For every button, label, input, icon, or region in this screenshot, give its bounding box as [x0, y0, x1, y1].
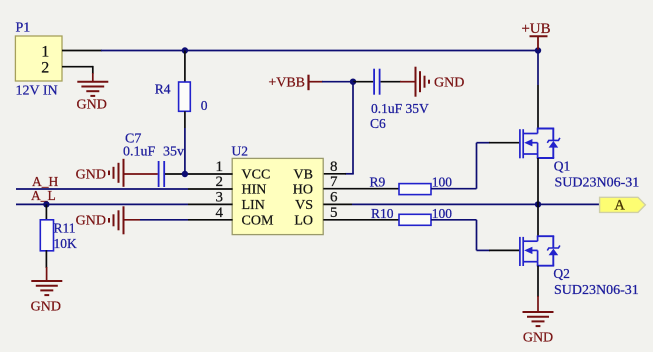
wire +VBB to junction [322, 81, 353, 83]
wire GND to C7 [124, 173, 158, 175]
svg-text:0: 0 [201, 98, 208, 113]
ground GND at C6 (right-pointing) [416, 67, 465, 97]
wire R9 to Q1 gate [431, 143, 519, 189]
power +UB [521, 21, 550, 50]
svg-text:VB: VB [294, 168, 313, 183]
svg-text:P1: P1 [16, 21, 31, 36]
svg-text:3: 3 [216, 189, 224, 205]
ground GND at R11 [31, 267, 63, 315]
wire R10 to Q2 gate [431, 220, 519, 251]
wire C7 to pin 1 [165, 173, 233, 175]
svg-text:SUD23N06-31: SUD23N06-31 [555, 175, 640, 190]
svg-text:2: 2 [216, 174, 224, 190]
svg-text:+VBB: +VBB [268, 76, 305, 91]
junction at R4 branch [182, 47, 188, 53]
wire pin 2 stub [188, 188, 233, 190]
svg-text:0.1uF: 0.1uF [123, 145, 156, 160]
svg-text:GND: GND [76, 168, 106, 183]
power +VBB [268, 75, 323, 91]
resistor R10 [371, 206, 452, 226]
wire P1 pin2 to ground [92, 66, 94, 74]
ground GND at P1 [77, 73, 109, 113]
wire Q1 source to A node [537, 158, 539, 204]
svg-text:5: 5 [330, 205, 338, 221]
svg-text:GND: GND [76, 213, 106, 228]
wire net A_L [16, 203, 188, 205]
wire A_L to R11 [45, 204, 47, 220]
svg-text:R10: R10 [371, 206, 394, 221]
capacitor C6 [370, 69, 429, 131]
svg-text:12V IN: 12V IN [16, 84, 58, 99]
svg-text:7: 7 [330, 174, 338, 190]
svg-text:R9: R9 [370, 174, 386, 189]
wire pin 8 stub [323, 173, 346, 175]
wire pin 5 stub [323, 219, 399, 221]
ground GND at pin4 (left-pointing) [76, 206, 124, 234]
svg-text:GND: GND [434, 76, 464, 91]
wire R4 top [184, 51, 186, 83]
svg-text:LIN: LIN [242, 198, 265, 213]
pin 1 of P1 [41, 43, 102, 60]
svg-text:C6: C6 [370, 116, 386, 131]
junction A_L / R11 [43, 201, 49, 207]
port A flag [600, 197, 646, 213]
wire R11 to ground [45, 250, 47, 268]
svg-text:6: 6 [330, 189, 338, 205]
svg-text:VS: VS [295, 198, 313, 213]
wire net A to flag [352, 203, 600, 205]
svg-text:100: 100 [432, 206, 453, 221]
svg-text:R4: R4 [155, 82, 171, 97]
svg-text:GND: GND [31, 300, 61, 315]
transistor Q2 [520, 236, 639, 298]
transistor Q1 [520, 129, 639, 191]
IC U2 [232, 144, 324, 235]
pin 2 of P1 [41, 59, 93, 76]
junction VCC node [182, 171, 188, 177]
svg-text:COM: COM [242, 213, 274, 228]
wire net +12V top rail [101, 50, 538, 52]
wire pin 7 stub [323, 188, 399, 190]
svg-text:2: 2 [41, 59, 49, 76]
svg-text:LO: LO [294, 213, 313, 228]
wire Q2 source to ground [537, 266, 539, 297]
connector P1 [15, 21, 62, 99]
svg-text:GND: GND [523, 331, 553, 346]
capacitor C7 [123, 132, 184, 188]
junction A node [535, 201, 541, 207]
svg-text:HO: HO [293, 182, 313, 197]
svg-text:0.1uF 35V: 0.1uF 35V [371, 101, 429, 116]
wire pin 3 stub [188, 203, 233, 205]
svg-text:HIN: HIN [242, 182, 267, 197]
svg-text:+UB: +UB [521, 21, 550, 37]
svg-text:VCC: VCC [242, 168, 271, 183]
svg-text:Q2: Q2 [553, 266, 570, 281]
svg-text:100: 100 [432, 174, 453, 189]
wire C6 to ground [381, 81, 401, 83]
svg-text:SUD23N06-31: SUD23N06-31 [554, 283, 639, 298]
svg-text:1: 1 [216, 159, 224, 175]
wire pin 6 stub [323, 203, 352, 205]
svg-text:GND: GND [77, 98, 107, 113]
ground GND at pin1 (left-pointing) [76, 159, 124, 187]
wire A node to Q2 drain [537, 204, 539, 236]
svg-text:4: 4 [216, 205, 224, 221]
svg-text:35v: 35v [163, 145, 184, 160]
wire +UB rail down to Q1 drain [537, 51, 539, 129]
junction at +UB [535, 47, 541, 53]
svg-text:A_H: A_H [32, 174, 58, 189]
ground GND at Q2 [523, 296, 554, 346]
wire VBB junction down to pin 8 [352, 82, 354, 174]
svg-text:10K: 10K [54, 236, 78, 251]
wire pin 4 stub [188, 219, 233, 221]
resistor R9 [370, 174, 453, 194]
wire junction to C6 [353, 81, 373, 83]
svg-text:1: 1 [41, 43, 49, 60]
wire R4 bottom to VCC node [184, 111, 186, 128]
wire GND to pin 4 [124, 219, 141, 221]
svg-text:8: 8 [330, 159, 338, 175]
svg-text:R11: R11 [54, 221, 76, 236]
svg-text:Q1: Q1 [554, 159, 571, 174]
resistor R4 [155, 82, 208, 113]
junction VBB node [350, 79, 356, 85]
wire net A_H [16, 188, 188, 190]
svg-text:U2: U2 [232, 144, 249, 159]
svg-text:A_L: A_L [31, 188, 56, 203]
resistor R11 [40, 220, 77, 251]
svg-text:A: A [614, 198, 625, 214]
